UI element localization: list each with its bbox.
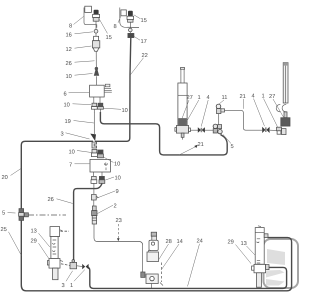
svg-text:10: 10	[68, 150, 74, 156]
svg-text:25: 25	[0, 227, 6, 233]
svg-text:23: 23	[115, 218, 121, 224]
connector dark above box7	[97, 150, 103, 158]
connector 10 left under box6	[91, 103, 97, 112]
svg-text:27: 27	[186, 95, 192, 101]
svg-text:9: 9	[115, 189, 118, 195]
svg-text:2: 2	[113, 204, 116, 210]
label 29 left	[30, 239, 48, 259]
label 16	[65, 32, 93, 39]
connector 17	[128, 33, 134, 37]
svg-text:1: 1	[70, 283, 73, 289]
svg-text:12: 12	[65, 47, 71, 53]
svg-text:16: 16	[65, 33, 71, 39]
valve T 3	[70, 260, 77, 269]
label 5 left	[2, 211, 16, 217]
svg-text:4: 4	[251, 94, 254, 100]
hose 24 bottom upper line	[88, 267, 287, 288]
label 21 box	[179, 142, 204, 155]
label 15 n1	[100, 20, 112, 42]
svg-text:1: 1	[261, 94, 264, 100]
valve 5 on left loop	[19, 209, 29, 221]
label 4 cylR	[251, 94, 264, 127]
svg-text:10: 10	[114, 162, 120, 168]
label 10 right row2	[104, 108, 128, 114]
label 14	[161, 239, 183, 270]
label 29 right	[227, 240, 251, 264]
label 26 mid-left	[47, 197, 72, 203]
label 23	[115, 218, 121, 241]
label 5 cross	[223, 135, 234, 151]
pipe line left cylinder to cross	[190, 129, 213, 131]
elbow 27 right	[281, 112, 290, 135]
box 6 carb	[90, 84, 112, 103]
svg-text:13: 13	[30, 229, 36, 235]
label 2	[98, 204, 117, 214]
label 13 left	[30, 229, 49, 247]
svg-text:10: 10	[121, 108, 127, 114]
cylinder right thin tube	[283, 63, 288, 103]
fitting 1 bottom bowtie	[82, 264, 88, 269]
svg-text:15: 15	[105, 35, 111, 41]
svg-text:14: 14	[176, 239, 182, 245]
nozzle N1	[93, 10, 100, 29]
connector 10 below box7 left	[91, 176, 97, 194]
hose 26 from box7 down-left	[74, 184, 102, 263]
label 12	[65, 46, 91, 53]
label 3 mid	[60, 132, 89, 139]
watermark logo box	[264, 239, 299, 288]
plug 2	[92, 200, 97, 224]
svg-text:26: 26	[47, 197, 53, 203]
box 7	[90, 159, 110, 176]
label 26	[65, 61, 94, 67]
svg-text:21: 21	[197, 142, 203, 148]
svg-text:3: 3	[61, 283, 64, 289]
cross fitting 5	[213, 124, 222, 134]
svg-text:10: 10	[65, 74, 71, 80]
svg-text:3: 3	[60, 132, 63, 138]
svg-text:24: 24	[196, 239, 202, 245]
pump assembly bottom center	[141, 232, 159, 288]
svg-text:11: 11	[221, 95, 227, 101]
label 10 left row2	[63, 103, 91, 109]
label 11	[219, 95, 227, 104]
svg-text:5: 5	[2, 211, 5, 217]
svg-text:19: 19	[64, 119, 70, 125]
label 10 cone	[65, 74, 92, 81]
dashed link filter head to valve	[61, 230, 70, 232]
svg-text:8: 8	[113, 24, 116, 30]
svg-text:15: 15	[140, 18, 146, 24]
svg-text:27: 27	[269, 94, 275, 100]
bracket B2	[120, 8, 139, 28]
hose 22	[95, 38, 131, 142]
label 9	[97, 189, 119, 198]
svg-text:10: 10	[114, 176, 120, 182]
svg-text:21: 21	[239, 94, 245, 100]
fitting 9	[91, 195, 98, 200]
label 13 right	[240, 241, 255, 255]
dash-dot line 5	[28, 214, 66, 216]
label 20	[1, 169, 21, 182]
cone 10	[94, 67, 99, 85]
svg-text:5: 5	[230, 144, 233, 150]
svg-text:29: 29	[30, 239, 36, 245]
label 1 cylR	[261, 94, 277, 127]
label 17	[134, 36, 147, 45]
connector dark below box7 right	[99, 176, 105, 183]
cylinder left	[175, 68, 191, 140]
label 28	[159, 239, 172, 259]
label 3 bottom	[61, 271, 72, 289]
filter assembly bottom-left	[47, 227, 63, 280]
svg-text:22: 22	[141, 53, 147, 59]
hose 21 via rounded box	[100, 112, 227, 155]
connector 10 above box7	[91, 149, 97, 156]
hose/pipe 23 plug2 to pump	[94, 224, 143, 272]
elbow 11	[216, 104, 224, 114]
label 10 box7 low	[106, 176, 121, 182]
label 24	[188, 239, 203, 287]
label 4 cylL	[201, 95, 209, 126]
label 6	[63, 92, 89, 98]
nozzle N2	[127, 11, 134, 34]
junction 3	[89, 134, 96, 148]
fitting 4 left bowtie	[198, 127, 205, 133]
label 7	[69, 163, 90, 169]
label 15 n2	[134, 15, 147, 24]
connector 10 right under box6	[97, 103, 103, 112]
tube 26	[95, 51, 97, 67]
label 25	[0, 227, 21, 255]
fitting right small	[277, 127, 282, 134]
clips right	[276, 105, 286, 112]
svg-text:8: 8	[69, 24, 72, 30]
filter assembly bottom-right	[252, 226, 269, 287]
svg-text:17: 17	[140, 39, 146, 45]
svg-text:6: 6	[63, 92, 66, 98]
label 10 box7 right	[104, 157, 121, 168]
svg-text:26: 26	[65, 61, 71, 67]
svg-text:13: 13	[240, 241, 246, 247]
label 1 bottom	[70, 270, 85, 289]
label 27 cylR	[269, 94, 284, 117]
label 8 n2	[113, 16, 121, 30]
label 8 n1	[69, 17, 84, 30]
fitting 4 right bowtie	[262, 127, 269, 133]
pipe 11-4 to right cylinder	[225, 110, 263, 130]
svg-text:20: 20	[1, 175, 7, 181]
label 1 cylL	[186, 95, 201, 123]
ball 16	[94, 29, 98, 36]
label 27 cylL	[182, 95, 193, 118]
link elbow11 to cross5	[218, 114, 220, 125]
label 21 mid	[239, 94, 245, 109]
svg-text:1: 1	[197, 95, 200, 101]
label 22	[130, 53, 147, 75]
svg-text:7: 7	[69, 163, 72, 169]
label 19	[64, 119, 94, 125]
dashed drain pump	[161, 263, 163, 283]
svg-text:29: 29	[227, 240, 233, 246]
label 10 box7 top	[68, 150, 91, 156]
hose 20/25 left loop	[21, 141, 291, 290]
hose 19 link box6 to junction	[93, 112, 95, 134]
bracket B1	[84, 6, 97, 28]
svg-text:10: 10	[63, 103, 69, 109]
nozzle body 12	[92, 36, 99, 51]
